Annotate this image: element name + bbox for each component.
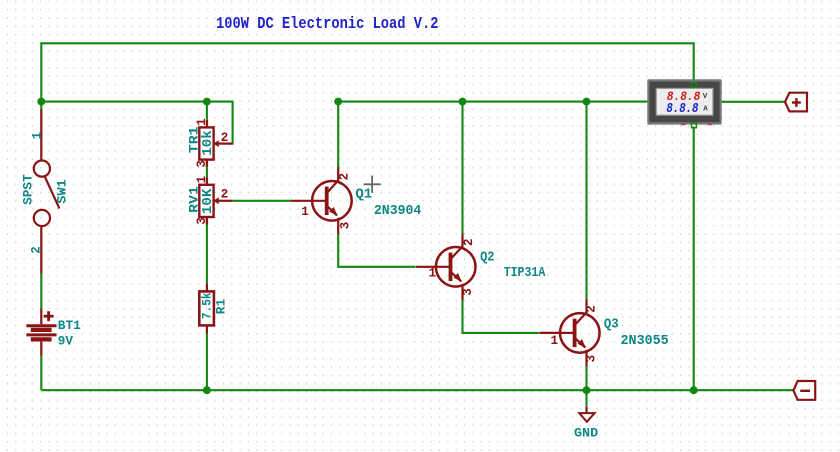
node Q2 collector	[459, 98, 467, 106]
node R1 bottom	[203, 386, 211, 394]
meter red mark left	[681, 124, 686, 126]
svg-text:2N3055: 2N3055	[621, 334, 669, 349]
svg-text:GND: GND	[574, 427, 599, 441]
wire Q1 emitter to Q2 base	[338, 234, 415, 267]
node TR1 top	[203, 98, 211, 106]
svg-text:Q3: Q3	[604, 318, 619, 333]
svg-text:2: 2	[29, 246, 43, 254]
svg-text:3: 3	[195, 160, 209, 168]
svg-text:3: 3	[338, 222, 352, 230]
transistor Q2	[416, 233, 476, 300]
svg-text:1: 1	[429, 267, 437, 281]
svg-text:10K: 10K	[201, 188, 216, 214]
svg-text:2: 2	[221, 131, 229, 145]
svg-text:BT1: BT1	[58, 318, 81, 333]
svg-text:2: 2	[338, 173, 352, 181]
svg-text:2N3904: 2N3904	[374, 204, 421, 219]
anchor cross Q1	[364, 176, 381, 193]
switch SW1	[34, 110, 60, 274]
node battery plus rail	[37, 98, 45, 106]
svg-text:2: 2	[585, 305, 599, 313]
wire meter to plus flag	[722, 101, 786, 103]
battery BT1	[26, 309, 56, 356]
transistor Q3	[540, 300, 600, 367]
wire meter bottom to bottom rail	[693, 127, 695, 391]
svg-text:Q2: Q2	[480, 250, 494, 265]
svg-text:TIP31A: TIP31A	[504, 266, 546, 281]
wire collector rail	[338, 101, 647, 103]
plus sign	[792, 98, 801, 107]
wiper arrow RV1	[213, 197, 219, 204]
svg-text:1: 1	[195, 118, 209, 126]
svg-text:SW1: SW1	[56, 179, 70, 203]
emitter arrow Q3	[577, 339, 586, 348]
wire Q2 emitter to Q3 base	[463, 300, 540, 333]
svg-text:V: V	[703, 93, 708, 101]
wire Q1 collector	[337, 102, 339, 168]
wire TR1 pot top pin	[206, 102, 208, 120]
svg-text:2: 2	[462, 238, 476, 246]
svg-text:7.5k: 7.5k	[200, 292, 214, 319]
svg-text:3: 3	[461, 288, 475, 296]
minus output flag	[793, 381, 815, 400]
svg-text:8.8.8: 8.8.8	[666, 102, 698, 117]
wire gnd stub	[585, 390, 587, 407]
svg-text:3: 3	[585, 355, 599, 363]
svg-text:9V: 9V	[58, 334, 73, 349]
wire top rail horizontal	[41, 43, 693, 101]
emitter arrow Q1	[329, 207, 338, 216]
panel meter U1	[647, 79, 721, 128]
minus sign	[800, 390, 810, 392]
emitter arrow Q2	[453, 273, 462, 282]
svg-text:1: 1	[551, 334, 559, 348]
svg-text:10k: 10k	[201, 130, 216, 156]
svg-text:2: 2	[221, 187, 229, 201]
svg-text:1: 1	[301, 205, 309, 219]
node meter bottom	[690, 386, 698, 394]
wire Q3 collector	[585, 102, 587, 300]
meter pin mark top	[692, 83, 697, 88]
resistor R1	[199, 283, 214, 333]
svg-text:RV1: RV1	[187, 186, 201, 213]
wire TR1 to RV1	[206, 167, 208, 177]
svg-text:R1: R1	[214, 299, 228, 314]
svg-text:SPST: SPST	[21, 174, 35, 205]
wire switch node stub	[40, 102, 42, 110]
wire Q3 emitter to bottom rail	[585, 366, 587, 390]
wire switch to battery	[40, 274, 42, 309]
wire Q2 collector	[461, 102, 463, 234]
svg-text:TR1: TR1	[187, 126, 201, 153]
svg-text:3: 3	[195, 217, 209, 225]
svg-text:Q1: Q1	[355, 188, 372, 203]
wire RV1 wiper to Q1 base	[233, 200, 292, 202]
potentiometer RV1	[199, 177, 232, 224]
svg-text:1: 1	[30, 132, 44, 140]
svg-text:100W DC Electronic Load V.2: 100W DC Electronic Load V.2	[216, 15, 439, 34]
ground symbol	[585, 407, 587, 413]
meter pin mark bottom	[692, 123, 697, 128]
svg-text:A: A	[703, 106, 708, 114]
wire bottom rail	[41, 389, 793, 391]
wire left mid rail	[41, 102, 232, 144]
wire R1 to bottom rail	[206, 334, 208, 391]
node Q3 emitter ground	[583, 386, 591, 394]
wire battery to bottom rail	[40, 356, 42, 390]
transistor Q1	[291, 167, 351, 234]
wiper arrow TR1	[213, 140, 219, 147]
wire RV1 to R1	[206, 225, 208, 284]
potentiometer TR1	[199, 120, 232, 167]
plus output flag	[785, 93, 807, 112]
node Q3 collector	[583, 98, 591, 106]
node Q1 collector	[334, 98, 342, 106]
meter red mark right	[707, 124, 712, 126]
svg-text:1: 1	[195, 176, 209, 184]
